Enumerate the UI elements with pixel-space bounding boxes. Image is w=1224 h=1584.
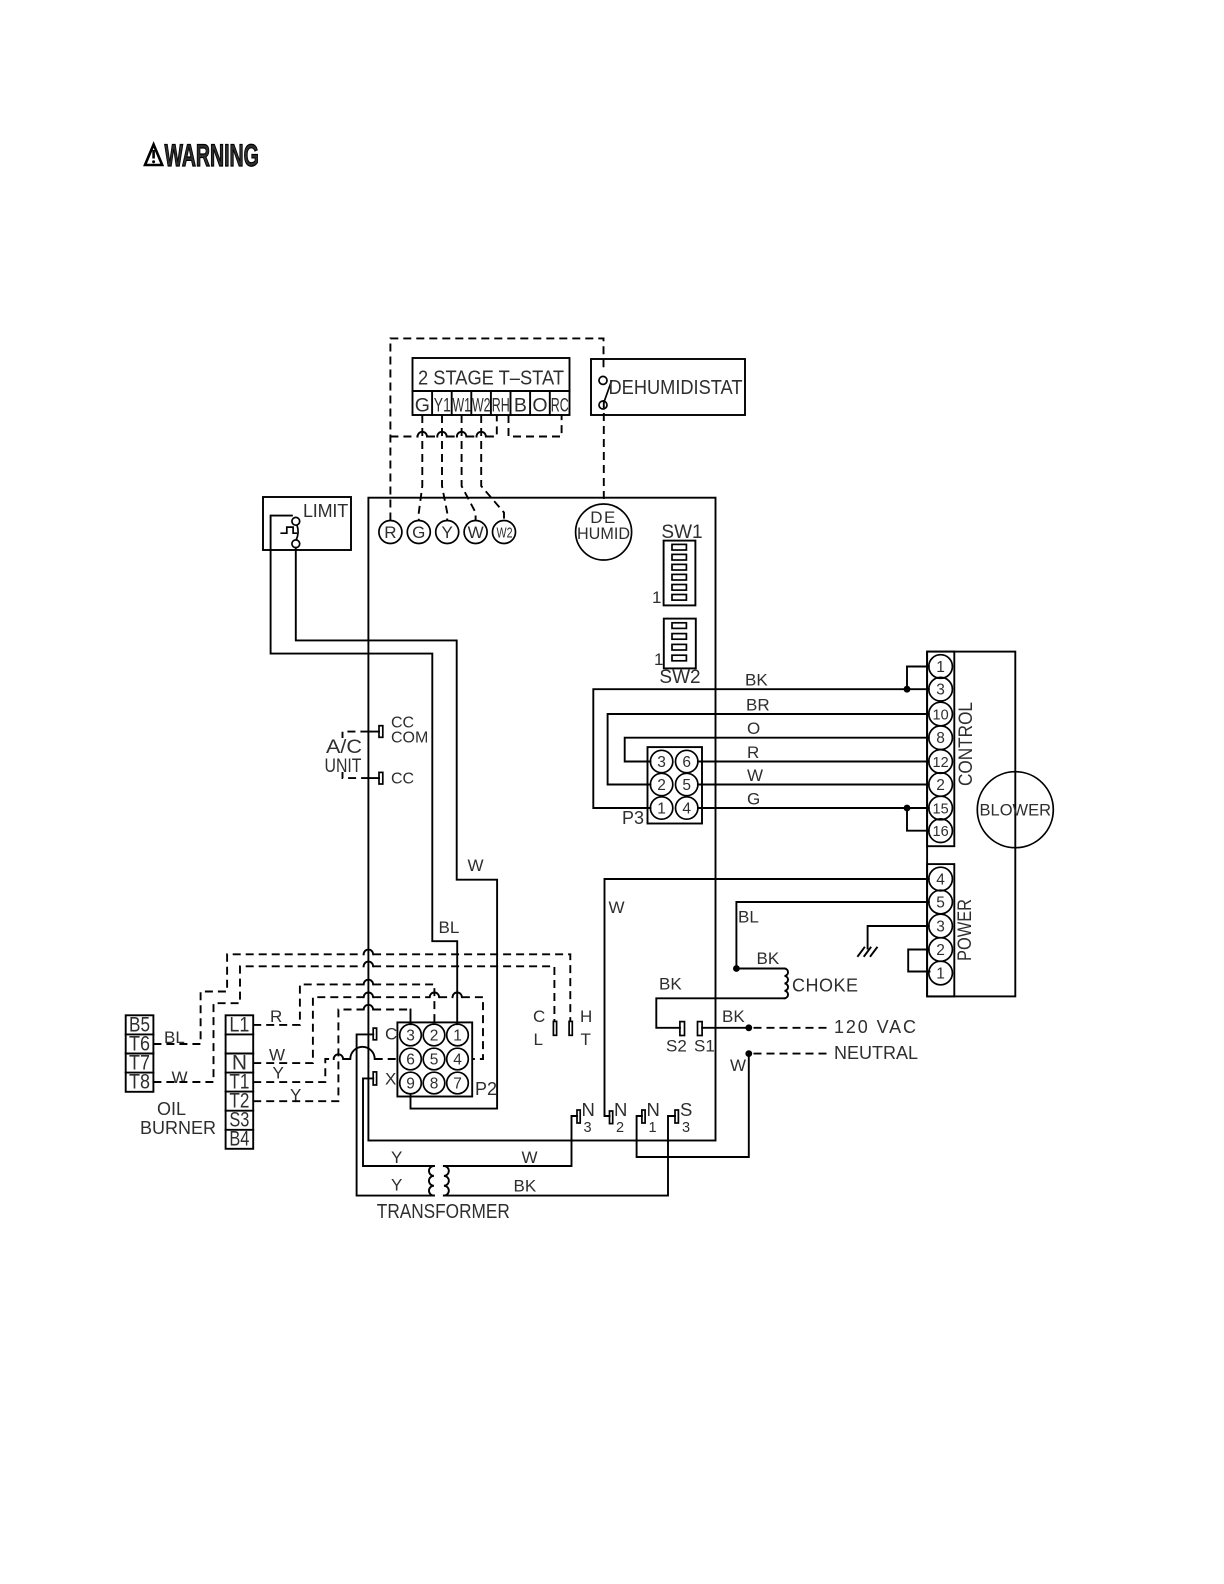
svg-text:9: 9 [406, 1076, 415, 1093]
svg-text:16: 16 [933, 824, 949, 840]
svg-text:1: 1 [936, 659, 945, 676]
svg-text:L: L [534, 1030, 543, 1049]
svg-text:3: 3 [406, 1028, 415, 1045]
svg-text:BURNER: BURNER [140, 1118, 216, 1138]
svg-text:HUMID: HUMID [577, 525, 630, 543]
svg-text:3: 3 [936, 919, 945, 936]
svg-text:1: 1 [649, 1120, 657, 1136]
svg-text:W: W [269, 1046, 285, 1065]
svg-text:4: 4 [682, 801, 691, 818]
svg-text:1: 1 [652, 588, 661, 607]
svg-text:R: R [270, 1007, 282, 1026]
svg-text:12: 12 [933, 755, 949, 771]
svg-text:Y: Y [391, 1176, 402, 1195]
svg-text:CHOKE: CHOKE [792, 976, 859, 996]
svg-text:W2: W2 [472, 395, 491, 417]
svg-text:S: S [680, 1099, 692, 1120]
svg-text:TRANSFORMER: TRANSFORMER [377, 1201, 510, 1223]
svg-text:5: 5 [682, 777, 691, 794]
svg-text:3: 3 [936, 682, 945, 699]
svg-text:6: 6 [406, 1052, 415, 1069]
svg-text:W: W [609, 898, 625, 917]
svg-text:N: N [614, 1099, 627, 1120]
svg-text:W1: W1 [453, 395, 472, 417]
svg-text:S1: S1 [694, 1037, 715, 1056]
svg-text:1: 1 [936, 966, 945, 983]
svg-text:3: 3 [584, 1120, 592, 1136]
svg-text:2 STAGE T–STAT: 2 STAGE T–STAT [418, 368, 564, 390]
svg-text:15: 15 [933, 802, 949, 818]
svg-text:CONTROL: CONTROL [956, 702, 977, 786]
svg-text:S2: S2 [666, 1037, 687, 1056]
svg-text:A/C: A/C [326, 737, 362, 758]
svg-text:B4: B4 [229, 1128, 249, 1151]
svg-text:2: 2 [657, 777, 666, 794]
svg-text:BK: BK [745, 671, 768, 690]
svg-text:2: 2 [936, 942, 945, 959]
svg-text:2: 2 [616, 1120, 624, 1136]
svg-text:Y: Y [273, 1064, 284, 1083]
svg-text:LIMIT: LIMIT [303, 501, 348, 521]
svg-text:H: H [580, 1007, 592, 1026]
svg-text:RC: RC [551, 395, 569, 417]
svg-text:POWER: POWER [955, 899, 976, 961]
svg-text:G: G [415, 395, 430, 417]
svg-text:5: 5 [936, 895, 945, 912]
svg-text:3: 3 [682, 1120, 690, 1136]
svg-text:W: W [747, 766, 763, 785]
svg-text:P2: P2 [475, 1079, 497, 1099]
svg-text:6: 6 [682, 754, 691, 771]
svg-text:C: C [385, 1025, 397, 1044]
svg-text:G: G [747, 790, 760, 809]
svg-text:10: 10 [933, 708, 949, 724]
svg-text:CC: CC [391, 771, 414, 788]
svg-text:R: R [747, 743, 759, 762]
svg-text:C: C [533, 1007, 545, 1026]
svg-text:COM: COM [391, 730, 428, 747]
svg-text:W: W [730, 1056, 746, 1075]
svg-text:BK: BK [514, 1177, 537, 1196]
svg-text:BL: BL [439, 918, 460, 937]
svg-text:BR: BR [746, 696, 770, 715]
svg-text:R: R [384, 523, 396, 542]
svg-text:Y1: Y1 [434, 395, 451, 417]
svg-text:7: 7 [453, 1076, 462, 1093]
svg-text:Y: Y [442, 523, 453, 542]
svg-text:1: 1 [453, 1028, 462, 1045]
svg-text:UNIT: UNIT [325, 756, 362, 777]
svg-text:W2: W2 [497, 525, 513, 542]
svg-text:P3: P3 [622, 808, 644, 828]
svg-text:5: 5 [430, 1052, 439, 1069]
svg-text:2: 2 [430, 1028, 439, 1045]
svg-text:BL: BL [738, 908, 759, 927]
svg-text:DEHUMIDISTAT: DEHUMIDISTAT [609, 377, 743, 399]
svg-text:W: W [468, 856, 484, 875]
svg-text:X: X [385, 1070, 396, 1089]
svg-text:T: T [581, 1030, 591, 1049]
svg-text:W: W [172, 1068, 188, 1087]
svg-text:4: 4 [936, 872, 945, 889]
svg-text:3: 3 [657, 754, 666, 771]
svg-text:O: O [747, 719, 760, 738]
svg-text:BK: BK [722, 1007, 745, 1026]
svg-text:2: 2 [936, 777, 945, 794]
svg-text:SW2: SW2 [659, 667, 700, 688]
svg-text:T8: T8 [129, 1071, 150, 1094]
svg-text:BK: BK [757, 949, 780, 968]
svg-text:N: N [647, 1099, 660, 1120]
svg-text:8: 8 [430, 1076, 439, 1093]
svg-text:8: 8 [936, 730, 945, 747]
svg-text:Y: Y [391, 1148, 402, 1167]
svg-text:4: 4 [453, 1052, 462, 1069]
svg-text:B: B [514, 395, 527, 417]
svg-text:BK: BK [659, 975, 682, 994]
svg-text:N: N [582, 1099, 595, 1120]
svg-text:OIL: OIL [157, 1099, 186, 1119]
svg-text:W: W [468, 523, 484, 542]
svg-text:O: O [532, 395, 547, 417]
svg-text:WARNING: WARNING [165, 137, 259, 173]
svg-text:NEUTRAL: NEUTRAL [834, 1043, 918, 1063]
svg-text:1: 1 [657, 801, 666, 818]
svg-text:W: W [522, 1148, 538, 1167]
svg-text:L1: L1 [229, 1014, 249, 1037]
svg-text:RH: RH [492, 395, 510, 417]
svg-text:G: G [412, 523, 425, 542]
svg-text:BLOWER: BLOWER [980, 802, 1052, 820]
